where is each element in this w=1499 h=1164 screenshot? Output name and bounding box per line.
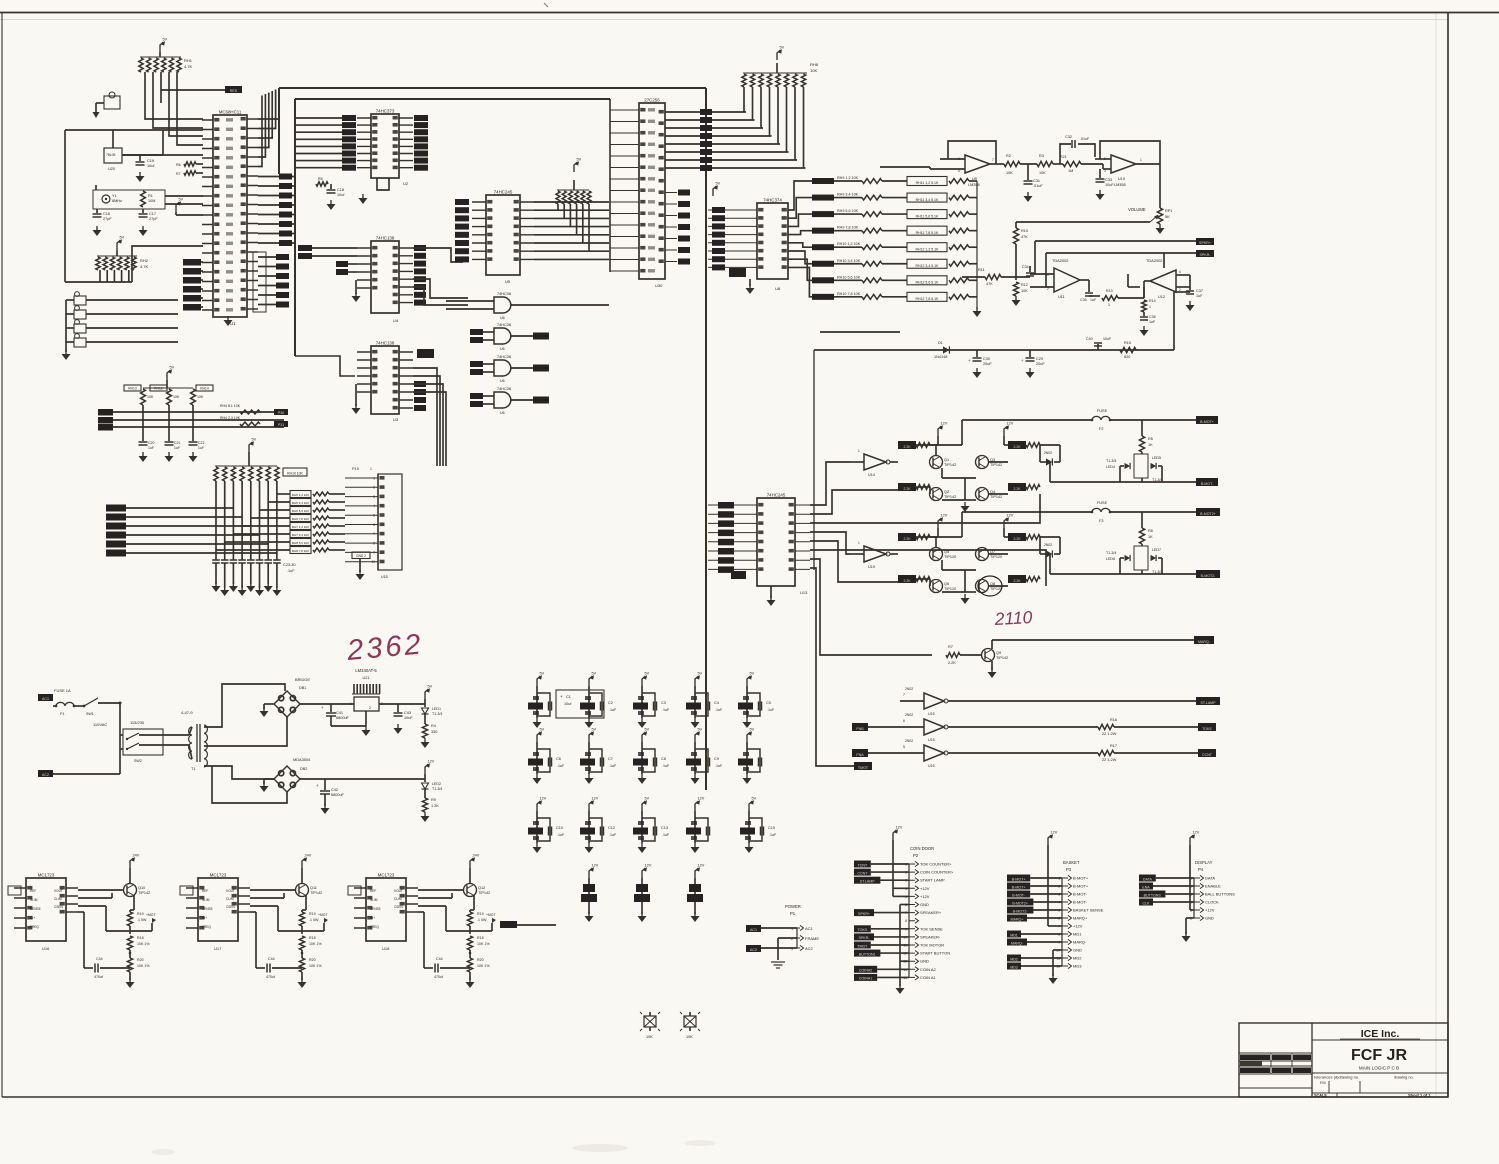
resistor R20 10K 1% (U18) [467, 950, 490, 972]
wire U13 fanout [810, 462, 1046, 766]
svg-text:AC1: AC1 [750, 928, 757, 932]
svg-text:MARQ+: MARQ+ [1011, 917, 1024, 921]
resistor RH8 1,0 10K [290, 547, 345, 554]
svg-text:12V: 12V [1007, 514, 1014, 518]
svg-text:5: 5 [958, 169, 960, 173]
svg-text:SENSE: SENSE [30, 907, 41, 911]
svg-text:74HC08: 74HC08 [497, 387, 511, 391]
capacitor C22 1uF [189, 405, 205, 450]
svg-text:CLIM: CLIM [226, 897, 234, 901]
power +5V output [425, 685, 433, 705]
node MARQ- [1007, 939, 1062, 946]
svg-text:1: 1 [370, 467, 372, 471]
svg-text:110VAC: 110VAC [93, 722, 107, 727]
svg-text:RH12 1,2 5.1K: RH12 1,2 5.1K [916, 247, 940, 251]
svg-text:REF: REF [202, 889, 208, 893]
svg-text:20uF: 20uF [983, 362, 992, 366]
svg-text:1: 1 [350, 702, 352, 706]
resistor RH3 2.2K (8) [1008, 575, 1040, 583]
SIP pack RN3 [687, 864, 705, 923]
node MD1 [1007, 931, 1062, 938]
fuse F1 1A [53, 688, 84, 716]
latch U8 74HC374 [708, 198, 788, 292]
svg-text:R17: R17 [1110, 744, 1117, 748]
resistor network RH2 4.7K [96, 250, 149, 270]
svg-text:22 1-2W: 22 1-2W [1102, 732, 1117, 736]
svg-text:2.2K: 2.2K [904, 537, 912, 541]
resistor RH3 2.2K (4) [1008, 483, 1040, 491]
wire RH2 bus [65, 130, 203, 282]
svg-text:.01uF: .01uF [1033, 184, 1043, 188]
resistor R5 1K [1139, 420, 1153, 452]
ground below C31 [1024, 192, 1033, 202]
svg-text:FREQ: FREQ [370, 925, 379, 929]
svg-text:5V: 5V [698, 672, 703, 676]
svg-text:VOUT: VOUT [54, 889, 63, 893]
svg-text:TIP142: TIP142 [310, 891, 322, 895]
resistor network RH4 [556, 180, 591, 251]
svg-text:1uF: 1uF [148, 446, 154, 450]
svg-text:C31: C31 [1033, 179, 1040, 183]
resistor R21 1M [1053, 155, 1103, 173]
svg-text:GND 2: GND 2 [356, 554, 366, 558]
capacitor C36 1uF [1140, 312, 1156, 324]
power amp U11 TDA2002 [1030, 258, 1089, 299]
svg-text:P3: P3 [1066, 867, 1072, 872]
svg-text:+12V: +12V [920, 894, 930, 899]
svg-text:TIP142: TIP142 [138, 891, 150, 895]
svg-text:C40: C40 [1086, 337, 1093, 341]
svg-text:P10: P10 [352, 466, 360, 471]
svg-text:B-MOT+: B-MOT+ [1012, 877, 1026, 881]
svg-text:VOUT: VOUT [226, 889, 235, 893]
svg-text:20uF: 20uF [1036, 362, 1045, 366]
svg-text:ST.LAMP: ST.LAMP [1201, 701, 1217, 705]
resistor RH3 2.2K (3) [1008, 441, 1040, 449]
svg-text:C21: C21 [174, 441, 180, 445]
svg-text:LED6: LED6 [1106, 557, 1115, 561]
ground below U13 [767, 586, 776, 606]
resistor R6 [176, 162, 203, 167]
svg-text:LED2: LED2 [432, 782, 441, 786]
svg-text:74HC374: 74HC374 [763, 198, 782, 203]
resistor R3 10K [1020, 154, 1053, 175]
connector P4 DISPLAY [1190, 860, 1235, 921]
svg-text:+: + [560, 694, 563, 699]
wire U11 U12 coupling [1128, 274, 1144, 298]
fuse F2 [936, 409, 1196, 445]
svg-text:5V: 5V [592, 672, 597, 676]
svg-text:GND: GND [1205, 916, 1214, 921]
svg-text:+12V: +12V [1205, 908, 1215, 913]
svg-text:1uF: 1uF [198, 446, 204, 450]
svg-text:RH14: RH14 [200, 387, 209, 391]
ground below P10 [356, 559, 388, 580]
resistor R18 10K 1% (U16) [127, 936, 150, 950]
node dark label below U13 [731, 571, 746, 579]
svg-text:C42: C42 [331, 788, 338, 792]
svg-text:2.2K: 2.2K [1014, 445, 1022, 449]
svg-text:+MOT: +MOT [486, 913, 496, 917]
node BUTTONS [1139, 891, 1194, 898]
svg-text:RH8: RH8 [810, 62, 819, 67]
svg-text:RH7 1,2 10K: RH7 1,2 10K [292, 525, 309, 529]
svg-text:5V: 5V [540, 672, 545, 676]
svg-text:Sheet 1 of 1: Sheet 1 of 1 [1408, 1093, 1431, 1098]
svg-text:.1uF: .1uF [767, 708, 775, 712]
svg-text:6800uF: 6800uF [336, 716, 350, 720]
svg-text:1.2K: 1.2K [431, 804, 439, 808]
svg-text:5V: 5V [645, 728, 650, 732]
svg-text:U15: U15 [928, 712, 935, 716]
svg-text:12V: 12V [540, 797, 547, 801]
svg-text:2N02: 2N02 [905, 739, 913, 743]
svg-text:10M: 10M [148, 199, 155, 203]
svg-text:.1uF: .1uF [715, 708, 723, 712]
svg-text:TMOT: TMOT [857, 944, 868, 948]
node A8-A15 labels [258, 174, 295, 247]
node MARQ2 dark label [500, 921, 556, 928]
crystal Y1 8MHz [93, 190, 165, 209]
wire reset to RES label [161, 89, 225, 91]
svg-text:2.2K: 2.2K [904, 487, 912, 491]
node TXD bus [98, 424, 284, 431]
svg-text:.1uF: .1uF [557, 833, 565, 837]
svg-text:AC2: AC2 [805, 946, 814, 951]
svg-text:.1uF: .1uF [609, 833, 617, 837]
svg-text:C35: C35 [1080, 298, 1087, 302]
decoder U3 74HC138 [357, 341, 426, 423]
svg-text:RH2: RH2 [140, 258, 149, 263]
wire RH1 to CPU rows [145, 72, 203, 145]
svg-text:U3: U3 [393, 417, 399, 422]
ground U16 [126, 972, 135, 988]
svg-text:10uf: 10uf [337, 193, 345, 197]
power +12V P3 [1048, 831, 1062, 927]
transistor Q5 TIP120 [930, 537, 957, 561]
svg-text:SPKR-: SPKR- [1200, 253, 1212, 257]
svg-text:MD3: MD3 [1010, 965, 1018, 969]
svg-text:10K 1%: 10K 1% [137, 942, 150, 946]
svg-text:620: 620 [1124, 355, 1130, 359]
ground below C36 [1140, 326, 1149, 336]
svg-text:7: 7 [992, 158, 994, 162]
svg-text:C44: C44 [96, 957, 103, 961]
wire AC mains [93, 702, 122, 775]
svg-text:RH13: RH13 [128, 387, 137, 391]
svg-text:FUSE: FUSE [1097, 501, 1108, 505]
svg-text:TIP142: TIP142 [944, 463, 956, 467]
svg-text:5V: 5V [716, 182, 721, 186]
regulator U21 LM340AT-5 [350, 668, 383, 736]
power +24V U16 [130, 854, 140, 885]
svg-text:10uf: 10uf [147, 164, 155, 168]
transistor Q8 TIP120 [976, 580, 1009, 593]
svg-text:RH1: RH1 [184, 58, 193, 63]
node B-MOT- [1050, 462, 1218, 486]
svg-text:AC2: AC2 [750, 948, 757, 952]
svg-text:RH12 7,8 5.1K: RH12 7,8 5.1K [916, 297, 940, 301]
svg-text:U2: U2 [403, 181, 409, 186]
svg-text:RH6 5,6 10K: RH6 5,6 10K [292, 509, 309, 513]
resistor R10 47K [1013, 222, 1028, 280]
svg-text:R6: R6 [1148, 529, 1153, 533]
power +12V bridge right [1004, 514, 1014, 538]
svg-text:2N02: 2N02 [905, 713, 913, 717]
svg-text:C29: C29 [1036, 357, 1043, 361]
svg-text:R21: R21 [1060, 155, 1067, 159]
resistor RH11 5,6 5.1K [882, 210, 977, 219]
svg-text:SPKR+: SPKR+ [858, 912, 870, 916]
svg-text:12V: 12V [1193, 831, 1200, 835]
annotation circle around Q8 [978, 576, 1002, 596]
resistor RH12 5,6 5.1K [882, 276, 977, 285]
svg-text:10K: 10K [1021, 289, 1028, 293]
svg-text:CSEN: CSEN [226, 905, 236, 909]
resistor R18 10K 1% (U17) [299, 936, 322, 950]
switch SW1 [83, 698, 120, 716]
buffer gate U15a [900, 687, 1196, 716]
capacitor C44 470uf (U17) [256, 940, 302, 979]
svg-text:1: 1 [1047, 273, 1049, 277]
resistor R1 10M [141, 191, 156, 207]
wire DB2 loop [212, 766, 287, 803]
node B-MOT+ [1007, 883, 1062, 890]
svg-text:5V: 5V [252, 438, 257, 442]
svg-text:R7: R7 [176, 172, 181, 176]
node CLK [1139, 899, 1194, 906]
wire bus B to U3 [295, 356, 355, 376]
ground below C43 [394, 724, 403, 734]
handwritten 2362 [345, 628, 425, 667]
svg-text:FCF JR: FCF JR [1351, 1047, 1407, 1064]
wire audio bottom rail [814, 292, 1190, 570]
svg-text:U8: U8 [775, 286, 781, 291]
svg-text:TIP120: TIP120 [944, 555, 956, 559]
svg-text:AC1: AC1 [805, 926, 814, 931]
svg-text:12V: 12V [896, 826, 903, 830]
capacitor C20 1uF [139, 405, 155, 450]
svg-text:10uf: 10uf [564, 702, 572, 706]
svg-text:SCALE: SCALE [1314, 1094, 1327, 1098]
resistor R13 1 [1089, 289, 1144, 307]
ground below U3 left [352, 384, 361, 414]
bus top rail B [295, 99, 610, 356]
svg-text:Q5: Q5 [944, 550, 949, 554]
svg-text:TIP142: TIP142 [996, 656, 1008, 660]
power +5V RH4 [574, 158, 582, 173]
scan smudge bottom [151, 1140, 716, 1155]
svg-text:B-MOT2-: B-MOT2- [1013, 909, 1029, 913]
power +12V bridge left [916, 514, 948, 538]
svg-text:R15: R15 [1124, 341, 1131, 345]
svg-text:10K: 10K [197, 395, 204, 399]
wire bridge center [942, 468, 976, 500]
svg-text:COIN DOOR: COIN DOOR [910, 846, 934, 851]
svg-text:5V: 5V [163, 38, 168, 42]
svg-text:12V: 12V [592, 797, 599, 801]
node +MOT output U18 [470, 913, 496, 934]
svg-text:RH9 5,6 10K: RH9 5,6 10K [837, 209, 859, 213]
svg-text:27pF: 27pF [149, 217, 158, 221]
ground below C20 [139, 452, 148, 462]
svg-text:ICE Inc.: ICE Inc. [1361, 1028, 1400, 1040]
power +12V output [425, 760, 435, 780]
power +12V bridge right [1004, 422, 1014, 446]
transistor Q1 TIP142 [930, 445, 957, 469]
svg-text:27pF: 27pF [103, 217, 112, 221]
op-amp U10 LM358 [1095, 141, 1160, 187]
svg-text:R13: R13 [1106, 289, 1113, 293]
wire P2 ground bus [900, 905, 909, 987]
svg-text:R12: R12 [1021, 283, 1028, 287]
svg-text:R20: R20 [477, 958, 484, 962]
svg-text:P2: P2 [913, 853, 919, 858]
power +5V for RH1 [160, 38, 168, 53]
svg-text:TIP142: TIP142 [478, 891, 490, 895]
svg-text:C3: C3 [661, 701, 666, 705]
svg-text:REF: REF [370, 889, 376, 893]
svg-text:Q6: Q6 [944, 582, 949, 586]
svg-text:DB2: DB2 [300, 767, 307, 771]
svg-text:470uf: 470uf [94, 975, 103, 979]
transistor Q11 TIP142 [250, 884, 322, 911]
svg-text:5V: 5V [170, 366, 175, 370]
node MARQ- [992, 636, 1214, 644]
node CCNT [1198, 749, 1216, 757]
svg-text:470uf: 470uf [266, 975, 275, 979]
svg-text:T1-3/4: T1-3/4 [432, 787, 442, 791]
ground P4 [1182, 932, 1191, 942]
capacitor C44 470uf (U16) [84, 940, 130, 979]
node BUTTON1 [854, 950, 909, 957]
svg-text:C16: C16 [103, 212, 110, 216]
svg-text:330: 330 [431, 730, 437, 734]
resistor R19 .1 5W (U16) [127, 910, 147, 926]
svg-text:U30: U30 [655, 283, 663, 288]
svg-text:5V: 5V [540, 728, 545, 732]
svg-text:RP1: RP1 [1165, 209, 1172, 213]
svg-text:2.2K: 2.2K [948, 661, 956, 665]
svg-text:4: 4 [1179, 270, 1181, 274]
svg-text:RH7 3,4 10K: RH7 3,4 10K [292, 533, 309, 537]
svg-text:R10: R10 [1021, 229, 1028, 233]
ground below C18 [327, 200, 336, 210]
svg-text:C10: C10 [556, 826, 563, 830]
resistor network RH8 10K [742, 62, 819, 168]
svg-text:10K: 10K [686, 1035, 693, 1039]
svg-text:U9: U9 [972, 177, 977, 181]
svg-text:CLIM: CLIM [394, 897, 402, 901]
svg-text:12V: 12V [592, 864, 599, 868]
svg-text:U14: U14 [868, 473, 875, 477]
resistor RH11 1,2 5.1K [882, 177, 977, 186]
svg-text:COINA2: COINA2 [859, 969, 872, 973]
svg-text:5K: 5K [1165, 215, 1170, 219]
svg-text:12V: 12V [941, 422, 948, 426]
svg-text:TIP120: TIP120 [944, 587, 956, 591]
wire matrix left rows [106, 505, 277, 557]
svg-text:RH11 7,8 5.1K: RH11 7,8 5.1K [916, 231, 939, 235]
node TOKS [854, 925, 909, 932]
power +24V U17 [302, 854, 312, 885]
resistor RH3 2.2K (5) [898, 533, 930, 541]
svg-text:GND: GND [920, 902, 929, 907]
node +MOT output U17 [302, 913, 328, 934]
svg-text:TOK MOTOR: TOK MOTOR [920, 943, 944, 948]
svg-text:B-MOT+: B-MOT+ [1073, 876, 1089, 881]
svg-text:3: 3 [1104, 169, 1106, 173]
svg-text:.1 5W: .1 5W [137, 918, 147, 922]
svg-text:BUTTONS: BUTTONS [1144, 893, 1162, 897]
svg-text:5V: 5V [750, 672, 755, 676]
svg-text:C17: C17 [149, 212, 156, 216]
node RES [225, 86, 242, 93]
svg-text:12V: 12V [645, 864, 652, 868]
svg-text:10K: 10K [1039, 171, 1046, 175]
capacitor C42 6800uF [300, 779, 425, 797]
node ST.LAMP [854, 877, 909, 884]
svg-text:R20: R20 [137, 958, 144, 962]
svg-text:C13: C13 [661, 826, 668, 830]
capacitor C23-30 .1uF [212, 560, 295, 573]
resistor RH9 3,4 10K [812, 193, 882, 201]
power amp U12 TDA2002 [1144, 253, 1190, 299]
svg-text:TMOT: TMOT [858, 766, 869, 770]
power +12V bridge left [916, 422, 948, 446]
svg-text:RH9 7,8 10K: RH9 7,8 10K [837, 226, 859, 230]
wire P4 ground [1186, 918, 1194, 934]
wire U16 feedback [78, 893, 130, 940]
svg-text:COINA1: COINA1 [859, 977, 872, 981]
svg-text:MC1723: MC1723 [378, 873, 395, 878]
wire ladder common [976, 181, 978, 309]
svg-text:R19: R19 [137, 912, 144, 916]
svg-text:MARQ-: MARQ- [1073, 940, 1087, 945]
buffer gate U15b [868, 713, 1098, 742]
svg-text:BALL BUTTONS: BALL BUTTONS [1205, 892, 1235, 897]
resistor RH14 10K [191, 385, 213, 405]
ground DB1 [260, 704, 275, 717]
power +5V near crystal [176, 198, 184, 213]
svg-text:LED5: LED5 [1152, 456, 1161, 460]
capacitor C3 row1 [633, 672, 670, 729]
node RX1 bus [98, 409, 284, 416]
svg-text:LM358: LM358 [1114, 183, 1126, 187]
svg-text:B-MOT-: B-MOT- [1073, 900, 1088, 905]
resistor R17 22 1-2W [1098, 744, 1198, 762]
svg-text:TOK COUNTER>: TOK COUNTER> [920, 862, 952, 867]
ground below C30 [973, 368, 982, 378]
svg-text:R1: R1 [148, 194, 153, 198]
node COINA2 [854, 966, 909, 973]
svg-text:TOKE: TOKE [1202, 727, 1212, 731]
ground below U4 left [352, 280, 361, 302]
svg-text:8MHz: 8MHz [112, 199, 122, 203]
svg-text:B-MOT+: B-MOT+ [1073, 884, 1089, 889]
svg-text:CSEN: CSEN [54, 905, 64, 909]
svg-text:U6: U6 [500, 347, 505, 351]
switch S5 [66, 334, 178, 347]
node +MOT output U16 [130, 913, 156, 934]
power +5V RH8 [777, 46, 785, 61]
svg-text:5V: 5V [577, 158, 582, 162]
resistor RH10 7,8 10K [812, 292, 882, 300]
ground below C19 [136, 172, 145, 182]
capacitor C35 1uF [1080, 280, 1097, 302]
svg-text:1uF: 1uF [1196, 294, 1203, 298]
resistor RH10 5,6 10K [812, 275, 882, 283]
